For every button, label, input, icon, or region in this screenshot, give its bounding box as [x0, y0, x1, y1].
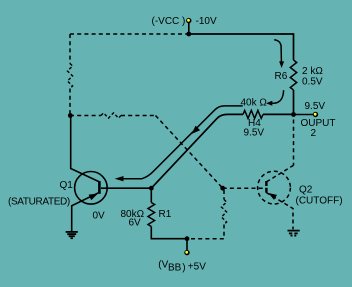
- arrow: current direction through R6: [274, 40, 281, 62]
- svg-text:40k Ω: 40k Ω: [241, 97, 268, 108]
- svg-text:0.5V: 0.5V: [302, 77, 323, 88]
- svg-text:9.5V: 9.5V: [305, 101, 326, 112]
- svg-text:Q2: Q2: [299, 185, 313, 196]
- wire: dashed Q2 base lead: [223, 187, 265, 189]
- wire: Q1 base lead: [101, 187, 151, 189]
- terminal OUTPUT 2: [313, 112, 318, 117]
- wire: output stub: [294, 114, 314, 116]
- arrow: signal path from 40k down to Q1 base: [119, 106, 243, 179]
- node: VBB junction: [185, 236, 190, 241]
- ground under Q2: [288, 231, 300, 236]
- node: output junction: [291, 112, 296, 117]
- resistor (dashed, unlabeled) left vertical: [67, 64, 72, 89]
- wire: dashed horizontal from left junction: [70, 115, 101, 117]
- terminal VBB: [184, 250, 189, 255]
- wire: dashed cross-coupling diagonal to Q2 base node: [156, 116, 223, 189]
- wire: top dashed rail from left corner to VCC junction: [70, 33, 189, 35]
- resistor (dashed, unlabeled) horizontal: [101, 113, 121, 118]
- wire: H4 left lead and solid diagonal to Q1 base node: [151, 114, 243, 188]
- resistor (dashed, unlabeled) below Q2 base node: [221, 200, 226, 225]
- resistor H4: [243, 110, 263, 118]
- wire: R1 top lead: [150, 188, 152, 202]
- wire: dashed branch down from Q2 base node: [223, 190, 225, 200]
- wire: H4 right lead: [263, 113, 294, 115]
- wire: dashed from output node down to Q2 collector: [293, 120, 295, 166]
- ground under Q1: [66, 232, 78, 238]
- svg-text:(CUTOFF): (CUTOFF): [296, 196, 343, 207]
- arrow: curved arrow pointing at 40k ohm: [272, 90, 284, 103]
- resistor R6: [290, 60, 296, 90]
- svg-text:Q1: Q1: [60, 180, 74, 191]
- svg-text:(-VCC ): (-VCC ): [152, 16, 186, 27]
- wire: left dashed rail upper segment: [69, 34, 71, 64]
- wire: dashed horizontal to diagonal bend: [121, 115, 156, 117]
- resistor R1: [148, 203, 155, 227]
- wire: R6 bottom lead to output node: [293, 90, 295, 115]
- svg-text:2 kΩ: 2 kΩ: [302, 66, 323, 77]
- svg-text:(SATURATED): (SATURATED): [8, 197, 70, 208]
- node: Q1 base junction: [149, 186, 154, 191]
- wire: VCC terminal stem: [188, 23, 190, 34]
- svg-text:9.5V: 9.5V: [244, 128, 265, 139]
- svg-text:): ): [182, 262, 185, 273]
- svg-text:R6: R6: [275, 71, 288, 82]
- svg-text:R1: R1: [159, 209, 172, 220]
- wire: R1 bottom lead to VBB junction: [151, 227, 187, 239]
- transistor Q1: [71, 116, 108, 232]
- svg-text:BB: BB: [168, 263, 182, 274]
- terminal (-VCC): [186, 18, 191, 23]
- svg-text:OUPUT: OUPUT: [301, 118, 336, 129]
- svg-text:0V: 0V: [93, 211, 106, 222]
- node: VCC junction: [186, 32, 191, 37]
- transistor Q2: [258, 165, 294, 229]
- wire: VBB stub: [186, 239, 188, 250]
- node: left junction: [68, 113, 73, 118]
- wire: left dashed rail lower segment: [69, 89, 71, 116]
- svg-text:2: 2: [311, 128, 317, 139]
- svg-text:6V: 6V: [129, 218, 142, 229]
- node: Q2 base junction: [220, 186, 225, 191]
- wire: top solid rail to right corner and down: [189, 34, 294, 60]
- svg-text:+5V: +5V: [188, 261, 206, 272]
- wire: dashed down to VBB rail and left to VBB junction: [190, 225, 225, 239]
- svg-text:-10V: -10V: [196, 16, 217, 27]
